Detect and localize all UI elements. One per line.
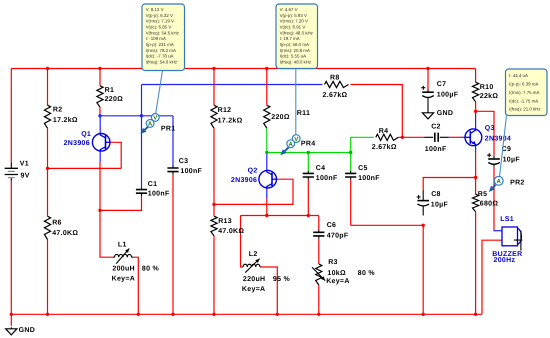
svg-text:C2: C2: [431, 124, 441, 131]
svg-text:2N3906: 2N3906: [64, 140, 90, 147]
wire R5 bottom: [475, 212, 477, 314]
probe PR4 pointer line: [295, 68, 297, 135]
buzzer LS1: [502, 227, 522, 251]
svg-text:R2: R2: [53, 107, 63, 114]
svg-text:R10: R10: [480, 84, 494, 91]
wire top power rail: [11, 68, 475, 70]
resistor R4: [376, 134, 399, 140]
wire blue feedback row: [142, 84, 323, 86]
wire R12 to R13: [213, 128, 215, 216]
svg-text:100nF: 100nF: [358, 175, 380, 182]
wire C4 bottom: [307, 180, 309, 216]
wire Q2 base loop: [214, 179, 293, 204]
wire Q3 base stub: [462, 136, 466, 138]
probe PR2 pointer line: [500, 116, 507, 177]
inductor L2: [243, 264, 260, 267]
wire node111 to C9: [476, 111, 494, 156]
wire C7 to gnd: [427, 100, 429, 111]
svg-text:I(rms): 78.2 mA: I(rms): 78.2 mA: [146, 48, 176, 53]
wire L1 right leg: [133, 257, 138, 314]
svg-text:V(rms): 7.19 V: V(rms): 7.19 V: [146, 19, 174, 24]
wire Q3 collector stub: [475, 111, 477, 129]
svg-text:680Ω: 680Ω: [480, 201, 499, 208]
junction green 350.7,152.5: [349, 151, 352, 154]
capacitor C2: [435, 133, 438, 142]
junction 318.8,314.3: [317, 313, 320, 316]
wire Q1 base loop: [110, 142, 121, 168]
junction 214,204.4: [212, 203, 215, 206]
svg-text:GND: GND: [437, 110, 453, 117]
wire L2 right leg: [260, 267, 277, 314]
svg-text:220Ω: 220Ω: [105, 96, 124, 103]
svg-text:V: 8.13 V: V: 8.13 V: [146, 7, 164, 12]
potentiometer R3: [316, 264, 322, 285]
svg-text:V(dc): 6.91 V: V(dc): 6.91 V: [280, 24, 306, 29]
plus C9: [487, 153, 491, 157]
junction 475.6,111.3: [474, 110, 477, 113]
svg-text:9V: 9V: [21, 173, 30, 180]
svg-text:Key=A: Key=A: [112, 275, 135, 282]
svg-text:22kΩ: 22kΩ: [480, 92, 499, 100]
probe PR4 A circle: [287, 140, 295, 148]
svg-text:Q2: Q2: [248, 167, 258, 174]
svg-text:L2: L2: [249, 251, 258, 258]
svg-text:I(freq): 54.6 kHz: I(freq): 54.6 kHz: [146, 60, 178, 65]
wire R1 bottom: [99, 107, 101, 116]
junction 266.8,215.5: [265, 214, 268, 217]
svg-text:C6: C6: [327, 222, 337, 229]
capacitor C7: [422, 91, 434, 93]
junction 47.5,168.4: [46, 167, 49, 170]
transistor Q2: [259, 170, 277, 188]
junction green 266.8,152.5: [265, 151, 268, 154]
junction 100,210.4: [98, 209, 101, 212]
wire L1 left leg: [100, 210, 113, 257]
junction 100,68.5: [98, 67, 101, 70]
probe PR1 V circle: [151, 114, 159, 122]
svg-text:R5: R5: [478, 191, 488, 198]
wire C3 top: [172, 116, 174, 166]
wire Q3 emitter down: [475, 152, 477, 178]
svg-text:I(p-p): 231 mA: I(p-p): 231 mA: [146, 42, 174, 47]
wire row225: [351, 224, 424, 226]
svg-text:I(dc): -7.78 uA: I(dc): -7.78 uA: [146, 54, 174, 59]
wire blue node row: [100, 115, 173, 117]
svg-text:I: 44.4 uA: I: 44.4 uA: [509, 73, 528, 78]
inductor L2 arrow: [245, 259, 259, 273]
svg-text:V: V: [153, 115, 157, 122]
wire R11 bottom green: [266, 128, 268, 152]
transistor Q1: [92, 134, 110, 152]
svg-text:100µF: 100µF: [437, 91, 459, 98]
junction 266.8,68.5: [265, 67, 268, 70]
svg-text:470pF: 470pF: [327, 232, 349, 239]
svg-text:C4: C4: [316, 165, 326, 172]
probe PR2 arrow: [491, 185, 496, 190]
resistor R1: [97, 86, 103, 107]
svg-text:47.0KΩ: 47.0KΩ: [218, 228, 244, 235]
resistor R8: [325, 81, 349, 87]
junction green 308.3,152.5: [307, 151, 310, 154]
wire R12 top: [213, 69, 215, 106]
wire R3 bottom: [318, 285, 320, 314]
svg-text:V(p-p): 6.32 V: V(p-p): 6.32 V: [146, 13, 173, 18]
svg-text:R12: R12: [218, 107, 232, 114]
svg-text:I: -109 mA: I: -109 mA: [146, 36, 166, 41]
svg-text:Q1: Q1: [81, 131, 91, 138]
junction 423.2,225.3: [422, 224, 425, 227]
svg-text:I(dc): 5.55 uA: I(dc): 5.55 uA: [280, 54, 306, 59]
battery V1: [5, 162, 18, 181]
capacitor C4 leads: [307, 171, 309, 180]
resistor R5: [473, 194, 479, 212]
wire Q1 collector stub: [99, 116, 101, 134]
svg-text:I(rms): 7.75 mA: I(rms): 7.75 mA: [509, 90, 539, 95]
capacitor C3: [167, 168, 178, 172]
svg-text:220Ω: 220Ω: [271, 114, 290, 121]
svg-text:100nF: 100nF: [316, 175, 338, 182]
svg-text:10µF: 10µF: [503, 157, 521, 164]
svg-text:I(freq): 21.0 kHz: I(freq): 21.0 kHz: [509, 107, 541, 112]
probe PR1 arrow: [143, 126, 150, 132]
wire R13 bottom: [213, 236, 215, 314]
svg-text:2N3906: 2N3906: [231, 177, 257, 184]
wire R10 top: [475, 69, 477, 83]
svg-text:100nF: 100nF: [180, 168, 202, 175]
wire R8 right: [351, 85, 403, 138]
svg-text:V: V: [294, 136, 298, 143]
svg-text:10µF: 10µF: [431, 201, 449, 208]
probe PR4 arrow: [283, 147, 290, 154]
wire gnd stub: [10, 314, 12, 326]
wire R2 bottom to node: [47, 128, 49, 168]
junction 47.5,314.3: [46, 313, 49, 316]
resistor R10: [473, 82, 479, 102]
capacitor C8 lead: [422, 191, 424, 216]
svg-text:V1: V1: [20, 161, 29, 168]
wire PR1 vertical: [141, 85, 143, 188]
capacitor C3 leads: [172, 166, 174, 175]
svg-text:R8: R8: [330, 75, 340, 82]
junction 138.3,314.3: [137, 313, 140, 316]
ground bottom left: [6, 327, 17, 335]
capacitor C6 leads: [318, 230, 320, 239]
junction 308.3,215.5: [307, 214, 310, 217]
wire node168 horizontal: [48, 167, 122, 169]
svg-text:I(freq): 48.0 kHz: I(freq): 48.0 kHz: [280, 60, 312, 65]
wire Q1 down to C1 row: [99, 162, 101, 211]
capacitor C6: [313, 232, 324, 236]
junction 277.3,314.3: [276, 313, 279, 316]
svg-text:I(p-p): 58.0 mA: I(p-p): 58.0 mA: [280, 42, 309, 47]
measurement box PR2: [506, 69, 548, 116]
wire R6 top: [47, 168, 49, 216]
junction 214,314.3: [212, 313, 215, 316]
probe PR4 V circle: [292, 135, 300, 143]
probe PR1 pointer line: [156, 71, 163, 115]
resistor R11: [264, 105, 270, 128]
svg-text:A: A: [289, 141, 294, 148]
svg-text:R1: R1: [105, 87, 115, 94]
wire C7 top: [427, 69, 429, 90]
svg-text:C3: C3: [179, 158, 189, 165]
svg-text:100nF: 100nF: [425, 146, 447, 153]
svg-text:R3: R3: [328, 259, 338, 266]
svg-text:V(p-p): 5.93 V: V(p-p): 5.93 V: [280, 13, 307, 18]
wire Q3 emitter stub: [475, 146, 477, 152]
svg-text:I(rms): 20.8 mA: I(rms): 20.8 mA: [280, 48, 310, 53]
svg-text:V(freq): 54.6 kHz: V(freq): 54.6 kHz: [146, 30, 179, 35]
wire C4 top green: [307, 153, 309, 171]
wire R4 right to C2: [398, 136, 424, 138]
junction 11.3,314.3: [10, 313, 13, 316]
resistor R12: [211, 105, 217, 128]
resistor R2: [44, 105, 50, 128]
wire battery bottom lead: [10, 181, 12, 314]
svg-text:A: A: [148, 121, 153, 128]
inductor L1 leads: [113, 256, 133, 258]
svg-text:PR4: PR4: [301, 140, 316, 147]
svg-text:V(freq): 48.0 kHz: V(freq): 48.0 kHz: [280, 30, 313, 35]
svg-text:C5: C5: [358, 165, 368, 172]
wire C2 right to Q3: [449, 136, 462, 138]
svg-text:Q3: Q3: [485, 125, 495, 132]
ground C7: [422, 111, 433, 119]
wire R10 bottom: [475, 102, 477, 112]
wire Q2 emitter stub: [266, 188, 268, 199]
wire green up to R4: [351, 137, 374, 152]
inductor L1 arrow: [116, 249, 129, 264]
probe PR1 A circle: [146, 120, 154, 128]
svg-text:I(dc): -1.75 mA: I(dc): -1.75 mA: [509, 98, 538, 103]
svg-text:Key=A: Key=A: [242, 286, 265, 293]
svg-text:V(dc): 6.85 V: V(dc): 6.85 V: [146, 24, 172, 29]
svg-text:LS1: LS1: [500, 216, 514, 223]
wire C9 bottom to buzzer: [493, 167, 495, 231]
capacitor C9: [488, 158, 500, 160]
potentiometer R3 arrow: [312, 267, 325, 280]
svg-text:200Hz: 200Hz: [494, 257, 516, 264]
transistor Q3: [465, 129, 482, 146]
svg-text:2.67kΩ: 2.67kΩ: [323, 91, 348, 99]
wire row215: [241, 215, 319, 217]
svg-text:C8: C8: [431, 191, 441, 198]
svg-text:PR1: PR1: [161, 126, 176, 133]
capacitor C8: [417, 200, 429, 202]
svg-text:47.0KΩ: 47.0KΩ: [52, 230, 78, 237]
junction 475.6,177.5: [474, 176, 477, 179]
svg-text:95 %: 95 %: [273, 276, 291, 283]
wire bottom ground rail: [11, 313, 482, 315]
svg-text:R6: R6: [52, 220, 62, 227]
svg-text:220uH: 220uH: [243, 276, 266, 283]
wire C8 bottom to rail: [422, 225, 424, 314]
capacitor C5 leads: [350, 171, 352, 180]
junction 475.6,314.3: [474, 313, 477, 316]
wire L2 left leg: [241, 216, 244, 268]
wire Q1 emitter stub: [99, 151, 101, 161]
svg-text:Key=A: Key=A: [326, 278, 349, 285]
wire buzzer top stub: [493, 230, 502, 232]
wire battery top lead: [10, 69, 12, 163]
plus C7: [421, 86, 425, 90]
svg-text:GND: GND: [19, 327, 35, 334]
resistor R13: [211, 216, 217, 236]
wire R6 bottom: [47, 240, 49, 315]
wire buzzer bottom pin: [482, 240, 502, 314]
svg-text:L1: L1: [118, 241, 127, 248]
svg-text:R4: R4: [379, 128, 389, 135]
svg-text:I: 19.7 mA: I: 19.7 mA: [280, 36, 300, 41]
capacitor C7 lead: [427, 89, 429, 100]
wire Q2 collector stub: [266, 153, 268, 171]
svg-text:V(rms): 7.20 V: V(rms): 7.20 V: [280, 19, 308, 24]
svg-text:17.2kΩ: 17.2kΩ: [218, 116, 243, 124]
resistor R6: [44, 216, 50, 239]
svg-text:100nF: 100nF: [148, 191, 170, 198]
wire C6 to R3: [318, 239, 320, 264]
svg-text:R11: R11: [297, 110, 310, 117]
wire Q2 emitter down: [266, 199, 268, 216]
junction 47.5,68.5: [46, 67, 49, 70]
junction 173,314.3: [171, 313, 174, 316]
svg-text:V: 4.67 V: V: 4.67 V: [280, 7, 298, 12]
svg-text:PR2: PR2: [510, 179, 525, 186]
junction blue 141.5,115.8: [140, 114, 143, 117]
svg-text:80 %: 80 %: [142, 266, 160, 273]
measurement box PR1: [142, 4, 185, 71]
wire R1 top: [99, 69, 101, 86]
svg-text:A: A: [497, 178, 502, 185]
wire R11 top: [266, 69, 268, 106]
svg-text:C7: C7: [437, 81, 447, 88]
wire R5 top: [475, 178, 477, 195]
wire C3 bottom: [172, 175, 174, 315]
svg-text:2N3904: 2N3904: [485, 135, 511, 142]
svg-text:200uH: 200uH: [112, 266, 135, 273]
wire R2 top: [47, 69, 49, 106]
svg-text:80 %: 80 %: [358, 270, 376, 277]
wire C6 top: [318, 216, 320, 230]
junction blue 100,115.8: [98, 114, 101, 117]
junction 423.2,314.3: [422, 313, 425, 316]
wire C5 top green: [350, 153, 352, 171]
svg-text:I(p-p): 6.39 mA: I(p-p): 6.39 mA: [509, 82, 538, 87]
capacitor C1: [136, 190, 147, 194]
wire C1 bottom: [100, 196, 142, 210]
svg-text:10kΩ: 10kΩ: [327, 269, 346, 277]
probe PR2 A circle: [494, 176, 503, 185]
junction 214,68.5: [212, 67, 215, 70]
svg-text:17.2kΩ: 17.2kΩ: [53, 116, 78, 124]
measurement box PR4: [276, 4, 318, 69]
svg-text:R13: R13: [218, 218, 232, 225]
svg-text:2.67kΩ: 2.67kΩ: [372, 143, 397, 151]
plus C8: [417, 195, 421, 199]
capacitor C5: [345, 173, 356, 177]
wire green tank row: [267, 152, 351, 154]
inductor L1: [115, 254, 132, 257]
capacitor C9 lead: [493, 156, 495, 167]
svg-text:C1: C1: [148, 181, 158, 188]
capacitor C4: [303, 173, 314, 177]
wire C5 bottom: [350, 180, 352, 226]
junction 402.3,137.3: [401, 136, 404, 139]
capacitor C1 leads: [141, 187, 143, 196]
junction 428,68.5: [426, 67, 429, 70]
wire row177 C8 top: [423, 178, 475, 191]
